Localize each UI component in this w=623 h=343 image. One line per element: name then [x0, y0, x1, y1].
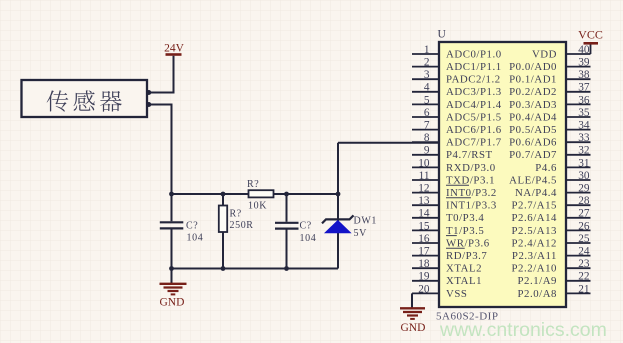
U pin 19 (XTAL1) — [412, 271, 482, 288]
svg-text:31: 31 — [578, 157, 589, 169]
svg-text:INT1/P3.3: INT1/P3.3 — [446, 200, 497, 212]
svg-text:WR/P3.6: WR/P3.6 — [446, 237, 490, 249]
svg-text:GND: GND — [401, 322, 426, 334]
U pin 17 (RD/P3.7) — [412, 246, 487, 263]
svg-text:P0.7/AD7: P0.7/AD7 — [509, 149, 557, 161]
wire pin 20 to chip ground — [411, 293, 413, 307]
svg-text:T0/P3.4: T0/P3.4 — [446, 212, 484, 224]
ground GND (left) — [160, 284, 187, 309]
svg-text:24: 24 — [578, 246, 590, 258]
svg-text:INT0/P3.2: INT0/P3.2 — [446, 187, 497, 199]
svg-text:P0.5/AD5: P0.5/AD5 — [509, 124, 557, 136]
svg-text:P2.1/A9: P2.1/A9 — [517, 275, 557, 287]
svg-text:17: 17 — [418, 246, 430, 258]
svg-text:21: 21 — [578, 283, 589, 295]
svg-text:ALE/P4.5: ALE/P4.5 — [509, 174, 557, 186]
svg-text:TXD/P3.1: TXD/P3.1 — [446, 174, 495, 186]
svg-text:18: 18 — [418, 258, 430, 270]
U pin 11 (TXD/P3.1) — [412, 170, 495, 187]
svg-text:P0.2/AD2: P0.2/AD2 — [509, 86, 557, 98]
svg-text:4: 4 — [424, 82, 430, 94]
U pin 31 (P4.6) — [535, 157, 590, 174]
svg-text:P4.7/RST: P4.7/RST — [446, 149, 493, 161]
wire sensor pin 2 down to divider bus — [148, 105, 172, 195]
svg-text:P4.6: P4.6 — [535, 162, 557, 174]
U pin 33 (P0.6/AD6) — [509, 132, 590, 149]
svg-text:P2.4/A12: P2.4/A12 — [512, 237, 558, 249]
wire 24V to sensor pin 1 — [148, 56, 174, 93]
svg-text:ADC6/P1.6: ADC6/P1.6 — [446, 124, 502, 136]
power port VCC — [578, 28, 603, 45]
svg-text:RXD/P3.0: RXD/P3.0 — [446, 162, 496, 174]
U pin 29 (NA/P4.4) — [515, 183, 590, 200]
svg-text:P2.5/A13: P2.5/A13 — [512, 225, 558, 237]
svg-text:PADC2/1.2: PADC2/1.2 — [446, 74, 501, 86]
svg-text:P0.4/AD4: P0.4/AD4 — [509, 111, 557, 123]
U pin 10 (RXD/P3.0) — [412, 157, 496, 174]
resistor R? 10K — [247, 179, 274, 212]
svg-text:6: 6 — [424, 107, 430, 119]
resistor R? 250R — [219, 194, 254, 269]
svg-text:13: 13 — [418, 195, 430, 207]
svg-text:23: 23 — [578, 258, 590, 270]
svg-text:C?: C? — [186, 221, 198, 232]
svg-text:30: 30 — [578, 170, 590, 182]
svg-text:DW1: DW1 — [354, 216, 377, 227]
svg-text:RD/P3.7: RD/P3.7 — [446, 250, 487, 262]
sensor box — [22, 80, 148, 117]
sensor label 传感器 — [47, 90, 122, 111]
U pin 2 (ADC1/P1.1) — [412, 57, 502, 74]
svg-text:ADC0/P1.0: ADC0/P1.0 — [446, 48, 502, 60]
svg-text:ADC1/P1.1: ADC1/P1.1 — [446, 61, 502, 73]
U pin 27 (P2.6/A14) — [512, 208, 591, 225]
svg-text:33: 33 — [578, 132, 590, 144]
svg-text:38: 38 — [578, 69, 590, 81]
svg-text:VDD: VDD — [532, 48, 557, 60]
U pin 40 (VDD) — [532, 44, 591, 61]
svg-text:8: 8 — [424, 132, 430, 144]
U pin 37 (P0.2/AD2) — [509, 82, 590, 99]
zener diode DW1 5V — [322, 215, 377, 239]
svg-text:VCC: VCC — [578, 28, 603, 42]
wire zener node up and right to U pin 8 — [338, 143, 439, 269]
U pin 24 (P2.3/A11) — [512, 246, 591, 263]
svg-text:28: 28 — [578, 195, 590, 207]
svg-text:P0.6/AD6: P0.6/AD6 — [509, 137, 557, 149]
junction top bus at R? 250R — [221, 192, 226, 197]
svg-text:XTAL2: XTAL2 — [446, 263, 482, 275]
U pin 20 (VSS) — [412, 283, 467, 300]
svg-text:39: 39 — [578, 57, 590, 69]
svg-text:P2.2/A10: P2.2/A10 — [512, 263, 558, 275]
U pin 30 (ALE/P4.5) — [509, 170, 590, 187]
svg-text:12: 12 — [418, 183, 430, 195]
svg-text:27: 27 — [578, 208, 590, 220]
svg-text:ADC7/P1.7: ADC7/P1.7 — [446, 137, 502, 149]
junction bottom bus at C? left / GND — [169, 266, 174, 271]
svg-text:40: 40 — [578, 44, 590, 56]
op-chip U (5A60S2-DIP) body — [438, 29, 567, 308]
U pin 22 (P2.1/A9) — [517, 271, 590, 288]
svg-text:www.cntronics.com: www.cntronics.com — [439, 319, 607, 341]
svg-text:34: 34 — [578, 120, 590, 132]
U pin 9 (P4.7/RST) — [412, 145, 493, 162]
U pin 3 (PADC2/1.2) — [412, 69, 501, 86]
svg-text:ADC4/P1.4: ADC4/P1.4 — [446, 99, 502, 111]
U pin 6 (ADC5/P1.5) — [412, 107, 502, 124]
U pin 34 (P0.5/AD5) — [509, 120, 590, 137]
U pin 18 (XTAL2) — [412, 258, 482, 275]
svg-text:P2.3/A11: P2.3/A11 — [512, 250, 557, 262]
U pin 35 (P0.4/AD4) — [509, 107, 590, 124]
junction top bus at C? right — [284, 192, 289, 197]
svg-text:3: 3 — [424, 69, 430, 81]
svg-text:NA/P4.4: NA/P4.4 — [515, 187, 557, 199]
svg-text:5: 5 — [424, 94, 430, 106]
svg-text:24V: 24V — [164, 43, 185, 55]
wire pin 40 to VCC bar — [590, 45, 592, 55]
svg-text:37: 37 — [578, 82, 590, 94]
junction top bus at C? left — [169, 192, 174, 197]
svg-text:104: 104 — [300, 233, 317, 244]
U pin 21 (P2.0/A8) — [517, 283, 590, 300]
svg-text:GND: GND — [160, 296, 185, 308]
svg-text:ADC5/P1.5: ADC5/P1.5 — [446, 111, 502, 123]
svg-text:ADC3/P1.3: ADC3/P1.3 — [446, 86, 502, 98]
U pin 16 (WR/P3.6) — [412, 233, 490, 250]
svg-text:C?: C? — [300, 221, 312, 232]
U pin 5 (ADC4/P1.4) — [412, 94, 502, 111]
svg-text:15: 15 — [418, 220, 430, 232]
svg-text:2: 2 — [424, 57, 430, 69]
U pin 25 (P2.4/A12) — [512, 233, 591, 250]
U pin 8 (ADC7/P1.7) — [412, 132, 502, 149]
U pin 38 (P0.1/AD1) — [509, 69, 590, 86]
power port 24V — [164, 43, 185, 56]
node sensor pin 1 — [146, 90, 151, 95]
U pin 7 (ADC6/P1.6) — [412, 120, 502, 137]
svg-text:XTAL1: XTAL1 — [446, 275, 482, 287]
capacitor C? 104 (left) — [160, 194, 204, 269]
svg-text:VSS: VSS — [446, 288, 467, 300]
svg-text:P2.7/A15: P2.7/A15 — [512, 200, 558, 212]
svg-text:250R: 250R — [230, 220, 254, 231]
U pin 36 (P0.3/AD3) — [509, 94, 590, 111]
svg-text:104: 104 — [187, 233, 204, 244]
svg-text:1: 1 — [424, 44, 430, 56]
svg-text:P2.6/A14: P2.6/A14 — [512, 212, 558, 224]
U pin 39 (P0.0/AD0) — [509, 57, 590, 74]
U pin 26 (P2.5/A13) — [512, 220, 591, 237]
svg-text:36: 36 — [578, 94, 590, 106]
wire top bus left (to R 10K) — [172, 193, 249, 195]
svg-text:16: 16 — [418, 233, 430, 245]
junction top bus at zener node — [336, 192, 341, 197]
U pin 1 (ADC0/P1.0) — [412, 44, 502, 61]
svg-text:14: 14 — [418, 208, 430, 220]
svg-text:19: 19 — [418, 271, 430, 283]
wire bottom bus — [172, 268, 339, 270]
svg-text:22: 22 — [578, 271, 590, 283]
svg-text:P2.0/A8: P2.0/A8 — [517, 288, 557, 300]
svg-text:T1/P3.5: T1/P3.5 — [446, 225, 484, 237]
junction bottom bus at C? right — [284, 266, 289, 271]
junction bottom bus at R? 250R — [221, 266, 226, 271]
svg-text:11: 11 — [419, 170, 430, 182]
svg-text:P0.1/AD1: P0.1/AD1 — [509, 74, 557, 86]
capacitor C? 104 (right) — [275, 194, 316, 269]
svg-text:5V: 5V — [354, 228, 368, 239]
svg-text:10: 10 — [418, 157, 430, 169]
svg-text:P0.3/AD3: P0.3/AD3 — [509, 99, 557, 111]
ground GND (chip VSS) — [400, 308, 425, 334]
svg-text:U: U — [438, 29, 447, 41]
U pin 14 (T0/P3.4) — [412, 208, 484, 225]
wire GND stem (left) — [171, 269, 173, 284]
svg-text:R?: R? — [230, 209, 242, 220]
wire top bus right (R 10K to zener node) — [274, 193, 339, 195]
svg-text:9: 9 — [424, 145, 430, 157]
svg-text:32: 32 — [578, 145, 590, 157]
svg-text:26: 26 — [578, 220, 590, 232]
U pin 23 (P2.2/A10) — [512, 258, 591, 275]
U pin 32 (P0.7/AD7) — [509, 145, 590, 162]
U pin 13 (INT1/P3.3) — [412, 195, 497, 212]
U pin 4 (ADC3/P1.3) — [412, 82, 502, 99]
U pin 15 (T1/P3.5) — [412, 220, 484, 237]
svg-text:10K: 10K — [248, 201, 267, 212]
svg-text:P0.0/AD0: P0.0/AD0 — [509, 61, 557, 73]
svg-text:35: 35 — [578, 107, 590, 119]
U pin 12 (INT0/P3.2) — [412, 183, 497, 200]
svg-text:R?: R? — [247, 179, 259, 190]
U pin 28 (P2.7/A15) — [512, 195, 591, 212]
svg-text:29: 29 — [578, 183, 590, 195]
svg-text:20: 20 — [418, 283, 430, 295]
svg-text:25: 25 — [578, 233, 590, 245]
svg-text:7: 7 — [424, 120, 430, 132]
node sensor pin 2 — [146, 102, 151, 107]
